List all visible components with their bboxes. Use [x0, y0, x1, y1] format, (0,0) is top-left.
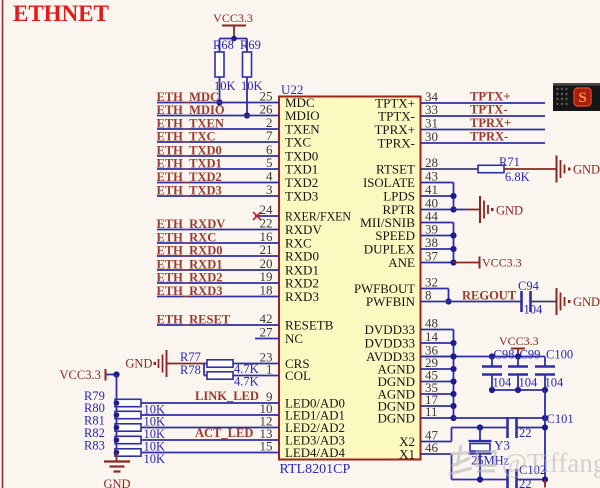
svg-text:RXD0: RXD0 — [285, 249, 319, 264]
svg-text:104: 104 — [545, 376, 565, 390]
resistor R80 — [115, 411, 141, 418]
wire pin 28 to R71 — [421, 168, 479, 170]
pin 25 MDC wire+label — [157, 102, 279, 104]
svg-text:VCC3.3: VCC3.3 — [60, 368, 101, 382]
wire pin 37 — [421, 262, 454, 264]
node R69 to ETH_MDIO — [244, 112, 250, 118]
node R68 to ETH_MDC — [216, 99, 222, 105]
svg-text:104: 104 — [524, 303, 544, 317]
crystal Y3 — [479, 428, 481, 441]
node C98 top — [489, 353, 495, 359]
svg-text:6.8K: 6.8K — [505, 170, 530, 184]
pin 19 RXD2 wire+label — [157, 282, 279, 284]
wire C94 to GND — [532, 301, 557, 303]
capacitor C99 — [517, 357, 519, 366]
op chip body U22 RTL8201CP — [279, 97, 421, 460]
pin 22 RXDV wire+label — [157, 229, 279, 231]
svg-text:RXD3: RXD3 — [285, 289, 319, 304]
svg-text:ETH_RXC: ETH_RXC — [157, 231, 217, 245]
svg-text:PWFBIN: PWFBIN — [366, 294, 416, 309]
wire pin 35 — [421, 393, 454, 395]
wire pin 38 — [421, 248, 454, 250]
svg-text:ETH_MDIO: ETH_MDIO — [157, 103, 225, 117]
wire bus 44-37 — [453, 223, 455, 263]
svg-text:C94: C94 — [518, 279, 540, 293]
svg-text:ETH_RESET: ETH_RESET — [157, 313, 231, 327]
wire pin 39 — [421, 235, 454, 237]
svg-text:7: 7 — [266, 128, 273, 143]
svg-text:DGND: DGND — [377, 411, 415, 426]
node ladder VCC junction — [113, 371, 119, 377]
wire and net label TPTX- — [421, 115, 546, 117]
pin 16 RXC wire+label — [157, 242, 279, 244]
svg-text:22: 22 — [519, 477, 532, 488]
power port GND at RPTR — [479, 196, 481, 223]
pin 21 RXD0 wire+label — [157, 255, 279, 257]
svg-text:ETH_TXD1: ETH_TXD1 — [157, 157, 222, 171]
wire rail stub to GND below — [544, 480, 546, 488]
svg-text:ETH_RXD3: ETH_RXD3 — [157, 284, 223, 298]
svg-text:GND: GND — [125, 357, 152, 371]
svg-text:C99: C99 — [520, 348, 541, 362]
svg-text:R83: R83 — [84, 439, 105, 453]
node pin 29 junction — [450, 366, 456, 372]
svg-text:21: 21 — [260, 242, 273, 257]
svg-text:8: 8 — [425, 288, 432, 303]
svg-text:LED4/AD4: LED4/AD4 — [285, 445, 345, 460]
wire pin 41 — [421, 195, 454, 197]
node C98 bottom — [489, 387, 495, 393]
pin 42 RESETB wire+label — [157, 324, 279, 326]
svg-text:104: 104 — [519, 376, 539, 390]
node REGOUT junction — [445, 298, 451, 304]
node VCC junction — [231, 36, 237, 42]
svg-text:ETH_RXD0: ETH_RXD0 — [157, 244, 223, 258]
svg-text:27: 27 — [260, 325, 274, 340]
node crystal top — [477, 424, 483, 430]
wire to VCC at ANE — [454, 262, 480, 264]
wire power bus 48-11 — [453, 330, 455, 419]
wire pin 36 — [421, 356, 454, 358]
node C99 top — [515, 353, 521, 359]
node pin 36 junction — [450, 353, 456, 359]
wire GND rail — [544, 390, 546, 480]
svg-text:ACT_LED: ACT_LED — [195, 426, 253, 440]
svg-text:R71: R71 — [499, 155, 520, 169]
node 38 junction — [450, 246, 456, 252]
wire R68/R69 tops — [220, 38, 248, 40]
svg-text:ETH_TXEN: ETH_TXEN — [157, 117, 224, 131]
svg-text:22: 22 — [519, 426, 532, 440]
pin 7 TXC wire+label — [157, 141, 279, 143]
wire pin 48 — [421, 329, 454, 331]
svg-text:X1: X1 — [399, 447, 415, 462]
svg-text:VCC3.3: VCC3.3 — [499, 334, 539, 348]
wire pin 11 — [421, 417, 454, 419]
pin 24 RXER/FXEN wire+label — [255, 215, 279, 217]
power port GND at C94 — [556, 288, 558, 315]
capacitor C98 — [491, 357, 493, 366]
wire AVDD33 cap bus — [421, 356, 546, 358]
svg-text:VCC3.3: VCC3.3 — [213, 11, 253, 25]
wire bus 43-40 — [453, 183, 455, 210]
wire and net label TPRX+ — [421, 129, 546, 131]
svg-text:ANE: ANE — [388, 255, 415, 270]
svg-text:C101: C101 — [547, 412, 574, 426]
node cap bus at power bus — [450, 353, 456, 359]
node pin 11 junction — [450, 415, 456, 421]
svg-text:C98: C98 — [494, 348, 515, 362]
resistor R69 — [246, 39, 248, 53]
svg-text:TPRX-: TPRX- — [377, 136, 415, 151]
svg-text:GND: GND — [496, 204, 523, 218]
wire cap bottom bus — [492, 389, 545, 391]
no-connect X marker pin 24 — [253, 212, 261, 220]
svg-text:GND: GND — [103, 477, 130, 488]
capacitor C94 — [520, 291, 523, 312]
svg-text:30: 30 — [425, 129, 438, 144]
pin 27 NC wire+label — [255, 338, 279, 340]
wire pin 29 — [421, 368, 454, 370]
svg-text:R78: R78 — [180, 363, 201, 377]
sheet border left edge — [2, 0, 4, 488]
resistor R83 — [115, 449, 141, 456]
wire pin 43 — [421, 182, 454, 184]
svg-text:ETH_TXC: ETH_TXC — [157, 130, 216, 144]
svg-text:ETHNET: ETHNET — [13, 1, 109, 26]
svg-text:R69: R69 — [240, 38, 261, 52]
wire X2 row — [452, 427, 508, 429]
svg-text:C100: C100 — [546, 348, 573, 362]
node C100 bottom — [542, 387, 548, 393]
svg-text:RTL8201CP: RTL8201CP — [280, 462, 351, 477]
wire R71 to GND — [504, 168, 557, 170]
node crystal bottom — [477, 476, 483, 482]
resistor R78 — [204, 375, 207, 377]
resistor R79 — [115, 399, 141, 406]
capacitor C102 — [506, 469, 509, 488]
node rail at C102 — [542, 476, 548, 482]
wire pin 14 — [421, 342, 454, 344]
wire to GND at RPTR — [454, 209, 467, 211]
node pin 17 junction — [450, 403, 456, 409]
svg-text:TXC: TXC — [285, 135, 311, 150]
wire pin 44 — [421, 222, 454, 224]
svg-text:LINK_LED: LINK_LED — [195, 389, 259, 403]
pin 5 TXD1 wire+label — [157, 168, 279, 170]
watermark zhihu text — [449, 445, 495, 474]
wire pin 8 REGOUT — [421, 301, 521, 303]
svg-text:TPRX+: TPRX+ — [470, 116, 511, 130]
power port VCC3.3 at ANE — [479, 257, 481, 269]
pin 4 TXD2 wire+label — [157, 182, 279, 184]
node 41 junction — [450, 193, 456, 199]
svg-text:@Tiffang: @Tiffang — [502, 448, 600, 478]
node 40 junction — [450, 206, 456, 212]
svg-text:TPTX-: TPTX- — [470, 103, 508, 117]
svg-text:TXD3: TXD3 — [285, 189, 318, 204]
resistor R81 — [115, 424, 141, 431]
node 37 junction — [450, 259, 456, 265]
ground earth symbol bottom left — [116, 453, 118, 462]
svg-text:S: S — [578, 90, 586, 106]
wire pin 47 X2 — [421, 441, 452, 443]
resistor R77 — [204, 363, 207, 365]
svg-text:GND: GND — [573, 163, 600, 177]
wire pin 45 — [421, 381, 454, 383]
wire ladder bus — [116, 375, 118, 453]
svg-text:TPTX+: TPTX+ — [470, 90, 510, 104]
pin 18 RXD3 wire+label — [157, 296, 279, 298]
pin 26 MDIO wire+label — [157, 115, 279, 117]
wire pin 40 — [421, 209, 454, 211]
resistor R71 — [478, 165, 504, 172]
pin 2 TXEN wire+label — [157, 128, 279, 130]
svg-text:GND: GND — [573, 295, 600, 309]
watermark logo box — [553, 83, 600, 111]
svg-text:10K: 10K — [144, 452, 166, 466]
wire R77/R78 common tie — [203, 364, 205, 376]
svg-text:3: 3 — [266, 182, 273, 197]
node rail at C101 — [542, 424, 548, 430]
wire pin 46 X1 — [421, 453, 452, 455]
svg-text:ETH_TXD0: ETH_TXD0 — [157, 144, 222, 158]
svg-text:4.7K: 4.7K — [234, 375, 259, 389]
wire and net label TPRX- — [421, 142, 546, 144]
svg-text:TPRX-: TPRX- — [470, 130, 508, 144]
node pin 14 junction — [450, 340, 456, 346]
resistor R82 — [115, 436, 141, 443]
power port GND at R71 — [556, 156, 558, 183]
wire pin 32 — [421, 288, 449, 290]
svg-text:VCC3.3: VCC3.3 — [482, 256, 522, 270]
svg-text:37: 37 — [425, 249, 439, 264]
node pin 45 junction — [450, 378, 456, 384]
watermark logo dot matrix — [556, 88, 558, 90]
resistor R68 — [219, 39, 221, 53]
svg-text:R77: R77 — [180, 350, 201, 364]
pin 3 TXD3 wire+label — [157, 195, 279, 197]
pin 20 RXD1 wire+label — [157, 269, 279, 271]
svg-text:REGOUT: REGOUT — [462, 289, 517, 303]
svg-text:ETH_TXD2: ETH_TXD2 — [157, 170, 222, 184]
wire and net label TPTX+ — [421, 102, 546, 104]
node pin 35 junction — [450, 391, 456, 397]
svg-text:104: 104 — [493, 376, 513, 390]
svg-text:COL: COL — [285, 368, 311, 383]
node rail at DGND row — [542, 415, 548, 421]
capacitor C100 — [544, 357, 546, 366]
svg-text:ETH_TXD3: ETH_TXD3 — [157, 184, 222, 198]
svg-text:ETH_MDC: ETH_MDC — [157, 90, 220, 104]
svg-text:ETH_RXDV: ETH_RXDV — [157, 217, 226, 231]
svg-text:18: 18 — [260, 283, 273, 298]
svg-text:ETH_RXD2: ETH_RXD2 — [157, 271, 223, 285]
wire X1 row — [452, 479, 508, 481]
wire pin 17 — [421, 405, 454, 407]
svg-text:R68: R68 — [213, 38, 234, 52]
wire DGND row to rail — [454, 417, 546, 419]
pin 6 TXD0 wire+label — [157, 155, 279, 157]
node C99 bottom — [515, 387, 521, 393]
watermark logo S icon — [574, 88, 591, 106]
svg-text:NC: NC — [285, 331, 303, 346]
capacitor C101 — [506, 417, 509, 438]
node 39 junction — [450, 232, 456, 238]
svg-text:ETH_RXD1: ETH_RXD1 — [157, 258, 223, 272]
